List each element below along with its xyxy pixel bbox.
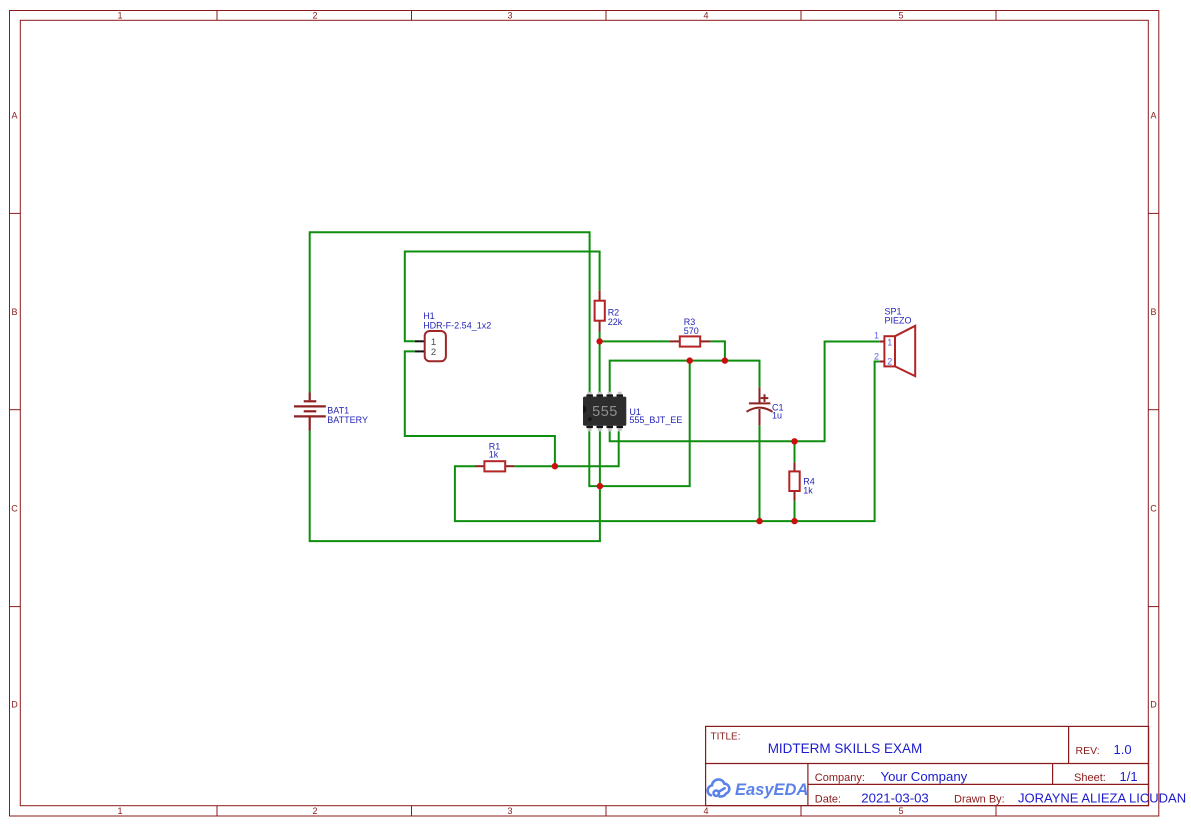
svg-text:Your Company: Your Company [881,769,968,784]
svg-text:B: B [11,307,17,317]
svg-text:D: D [11,700,18,710]
svg-text:5: 5 [898,806,903,816]
svg-text:A: A [11,111,17,121]
speaker SP1 [874,306,915,376]
node C1 bottom rail [756,518,762,524]
wire U1 bottom pin3 to SP1 pin1 [610,342,880,442]
svg-text:4: 4 [703,11,708,21]
EasyEDA logo [708,779,730,796]
junction dots [552,338,798,524]
svg-text:2021-03-03: 2021-03-03 [861,790,928,805]
node R4 top / out [791,438,797,444]
svg-text:A: A [1150,111,1156,121]
svg-text:2: 2 [312,11,317,21]
svg-text:H1: H1 [423,311,435,321]
svg-text:Sheet:: Sheet: [1074,772,1106,784]
resistor R2 [595,290,623,331]
wire battery- bottom loop to U1 bottom pin2 [310,431,600,542]
svg-text:2: 2 [887,357,892,367]
svg-text:2: 2 [312,806,317,816]
svg-text:1: 1 [117,11,122,21]
svg-text:2: 2 [431,347,436,358]
svg-text:EasyEDA: EasyEDA [735,781,808,799]
svg-text:MIDTERM SKILLS EXAM: MIDTERM SKILLS EXAM [768,741,923,756]
capacitor C1 [747,387,773,425]
svg-text:1: 1 [887,337,892,347]
node R3/C1 [722,357,728,363]
node R4 bottom rail [791,518,797,524]
resistor R3 [670,317,711,347]
wire U1 top pin3 to C1 top [610,361,760,393]
svg-text:R2: R2 [608,308,620,318]
svg-text:BATTERY: BATTERY [327,415,368,425]
svg-text:1u: 1u [772,411,782,421]
svg-text:3: 3 [507,806,512,816]
svg-text:555_BJT_EE: 555_BJT_EE [629,415,682,425]
wire H1 pin1 to R2 top [405,252,600,342]
svg-text:Date:: Date: [815,793,841,805]
svg-text:D: D [1150,700,1157,710]
wire R4 top lead [794,441,796,462]
svg-text:C: C [11,504,18,514]
svg-text:B: B [1150,307,1156,317]
wire C1 bottom to rail [759,426,761,521]
wire node junction R2 to R3 left [600,340,670,342]
wire R1 right to U1 bottom pin4 [514,431,618,466]
svg-text:BAT1: BAT1 [327,405,349,415]
svg-text:TITLE:: TITLE: [711,732,741,743]
svg-text:1: 1 [117,806,122,816]
wire R3 right to node at C1 net [710,341,725,360]
node gnd cross [597,483,603,489]
svg-text:4: 4 [703,806,708,816]
node pin1-loop top [687,357,693,363]
wire U1 bottom pin1 loop up to C1 net [589,361,689,487]
header H1 [415,311,491,361]
svg-text:Company:: Company: [815,772,865,784]
resistor R1 [475,442,514,472]
battery BAT1 [294,393,326,431]
node R1/H1 [552,463,558,469]
wire R2 bottom to U1 top pin2 [599,332,601,393]
svg-text:22k: 22k [608,317,623,327]
svg-text:5: 5 [898,11,903,21]
svg-text:555: 555 [592,404,618,420]
svg-text:Drawn By:: Drawn By: [954,793,1005,805]
svg-text:1.0: 1.0 [1114,742,1132,757]
wire R4 bottom lead [794,501,796,521]
top pin stubs [588,392,622,431]
resistor R4 [789,462,815,501]
svg-text:JORAYNE ALIEZA LICUDAN: JORAYNE ALIEZA LICUDAN [1018,790,1186,805]
wire battery+ top loop to U1 top pin1 [310,232,590,392]
svg-text:1k: 1k [803,486,813,496]
node R2/R3 junction [596,338,602,344]
wire R1 left to bottom rail to SP1 pin2 [455,362,880,522]
svg-text:HDR-F-2.54_1x2: HDR-F-2.54_1x2 [423,321,491,331]
svg-text:C: C [1150,504,1157,514]
svg-text:PIEZO: PIEZO [885,316,912,326]
svg-text:3: 3 [507,11,512,21]
svg-text:570: 570 [684,326,699,336]
IC U1 555 timer [583,392,682,431]
svg-text:REV:: REV: [1076,745,1100,757]
svg-text:1: 1 [874,330,879,340]
svg-text:2: 2 [874,351,879,361]
wire H1 pin2 down to R1 node [405,351,555,466]
svg-text:1k: 1k [489,450,499,460]
svg-text:1/1: 1/1 [1120,769,1138,784]
